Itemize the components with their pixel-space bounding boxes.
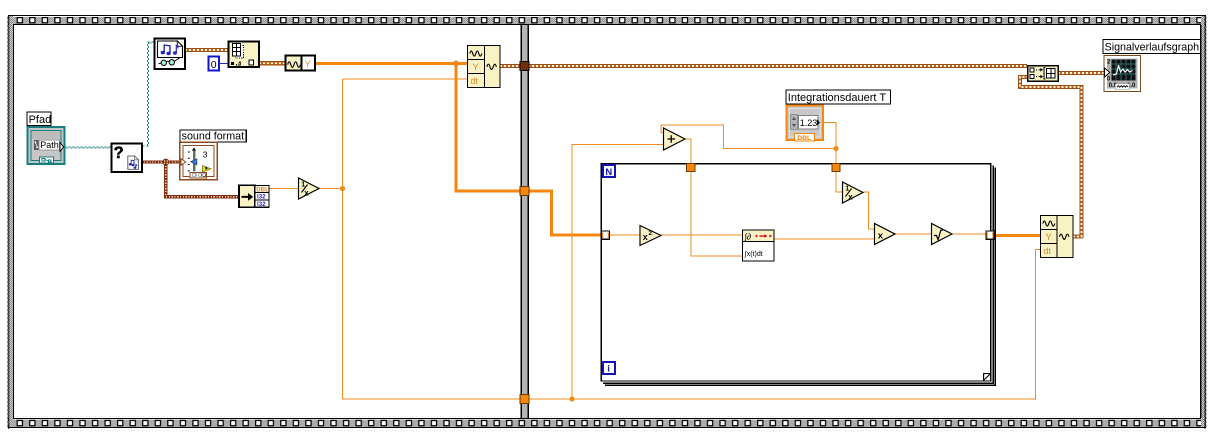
faint guide line top — [8, 10, 1206, 12]
wire: DBL Unbundle sample rate to reciprocal (thin orange) — [269, 188, 298, 190]
wire: path Sound File Info up to Sound Read (teal dashed) — [143, 42, 155, 146]
flat sequence frame divider — [521, 25, 522, 418]
Sound File Info VI — [112, 144, 143, 173]
tunnel: dt through divider — [520, 395, 529, 404]
wire: DBL reciprocal output dt to riser (thin orange) — [319, 188, 343, 190]
wire: waveform array Sound Read to Index Array (brown striped) — [185, 48, 228, 52]
wire: sound format cluster branch down to Unbundle (brown dotted) — [164, 162, 239, 197]
junction on DBL array wire — [453, 61, 459, 67]
svg-text:Pfad: Pfad — [29, 114, 52, 126]
wire: waveform Index Array to Get Waveform Components (brown striped) — [259, 61, 285, 65]
junction on dt wire — [340, 186, 345, 191]
tunnel: loop top right (T) — [832, 163, 840, 171]
svg-text:Y: Y — [1045, 232, 1052, 243]
wire: square root to loop output tunnel (thin orange) — [952, 233, 990, 235]
wire: loop reciprocal to multiply upper input (thin orange) — [864, 192, 875, 229]
junction on T wire — [833, 146, 838, 151]
junction on cluster wire — [162, 159, 169, 166]
svg-text:Integrationsdauert T: Integrationsdauert T — [788, 92, 887, 104]
svg-text:DBL: DBL — [797, 135, 811, 142]
svg-text:x: x — [304, 188, 309, 197]
wire: dt to Build Waveform 1 dt input (thin orange) — [343, 78, 468, 80]
wire: Integrationsdauert T control to junction and loop tunnel (thin orange) — [823, 123, 836, 164]
Sound Read VI — [155, 39, 186, 70]
tunnel: loop top left (dt+T) — [687, 163, 695, 171]
svg-text:∫∂: ∫∂ — [744, 231, 752, 241]
svg-text:dt: dt — [1043, 246, 1051, 256]
svg-text:x: x — [643, 232, 648, 242]
tunnel: loop output auto-indexing — [986, 231, 994, 239]
Build Waveform 1 — [468, 46, 501, 88]
svg-text:N: N — [605, 167, 612, 178]
svg-text:∫x(t)dt: ∫x(t)dt — [744, 251, 763, 258]
wire: x squared to integral (thin orange) — [661, 234, 742, 236]
svg-text:x: x — [878, 231, 884, 242]
tunnel: loop input auto-indexing — [601, 231, 609, 239]
Unbundle — [239, 185, 269, 208]
flat sequence structure: bottom film-strip border — [8, 419, 1206, 427]
multiply function — [875, 224, 896, 245]
svg-text:I32: I32 — [257, 201, 266, 208]
I32 constant 0 — [209, 57, 220, 71]
flat sequence structure: right torn border — [1201, 16, 1205, 427]
tunnel: waveform through divider — [520, 62, 529, 71]
wire: waveform array Build Array to Signalverlaufsgraph terminal (brown striped) — [1058, 71, 1104, 75]
flat sequence structure: left torn border — [9, 16, 13, 427]
label Integrationsdauert T — [786, 90, 891, 104]
integral x(t)dt — [743, 230, 775, 261]
wire: integral output to multiply lower input (thin orange) — [774, 238, 874, 240]
wire: waveform Build Waveform 1 across divider to Build Array (brown striped) — [500, 64, 1027, 68]
wire: multiply to square root (thin orange) — [895, 233, 931, 235]
wire: DBL array For loop output tunnel to Build Waveform 2 Y (thick orange) — [994, 234, 1040, 237]
wire: dt up to Build Waveform 2 dt input (thin orange) — [1036, 250, 1041, 400]
wire: dt riser to Add lower input (thin orange) — [572, 145, 663, 400]
wire: top right tunnel down to loop reciprocal (thin orange) — [836, 172, 842, 193]
Build Waveform 2 — [1041, 216, 1074, 258]
svg-text:dt: dt — [470, 76, 478, 86]
waveform graph terminal — [1104, 56, 1141, 92]
svg-text:2: 2 — [648, 230, 652, 237]
For loop iteration terminal i — [603, 362, 615, 375]
wire: loop tunnel to x squared (thin orange) — [610, 234, 641, 236]
svg-text:sound format: sound format — [182, 131, 245, 143]
label Pfad — [27, 112, 51, 126]
reciprocal 1/x — [299, 178, 320, 199]
wire: T branch to Add upper input (thin orange) — [661, 125, 836, 149]
square root function — [932, 224, 953, 245]
Build Array — [1028, 66, 1059, 82]
faint guide line below bottom band — [8, 430, 1206, 432]
svg-text:Y: Y — [305, 59, 312, 70]
svg-text:1.23: 1.23 — [800, 118, 818, 128]
faint guide line above bottom band — [14, 416, 1200, 418]
svg-text:?: ? — [114, 144, 124, 162]
svg-text:3: 3 — [203, 149, 208, 159]
wire: Add output down into For loop left top tunnel (thin orange) — [686, 139, 691, 164]
For loop fold corner — [984, 374, 991, 381]
svg-text:0: 0 — [211, 59, 217, 71]
junction on dt bottom run — [569, 396, 574, 401]
wire: path Pfad control to Sound File Info (teal dashed) — [65, 147, 112, 148]
Get Waveform Components — [286, 56, 316, 71]
wire: DBL array Get Waveform Components Y to Build Waveform 1 (thick orange) — [315, 62, 467, 65]
sound format cluster control — [180, 142, 217, 179]
loop reciprocal 1/x — [843, 182, 864, 203]
path control Pfad — [28, 127, 65, 164]
add function — [664, 128, 686, 150]
svg-text:x: x — [848, 192, 853, 201]
numeric control Integrationsdauert T — [787, 106, 824, 142]
tunnel: DBL array through divider — [520, 186, 529, 195]
flat sequence structure: top film-strip border — [8, 16, 1206, 24]
label sound format — [180, 130, 246, 143]
wire: DBL array branch down across divider into For loop (thick orange) — [456, 64, 602, 236]
wire: dt bottom run across divider to right frame (thin orange) — [343, 398, 1037, 400]
wire: waveform Build Waveform 2 up and around to Build Array input 2 (brown striped) — [1020, 77, 1082, 237]
wire: top left tunnel down to integral dt input (thin orange) — [691, 172, 742, 257]
label Signalverlaufsgraph — [1103, 40, 1201, 54]
wire: dt riser vertical (thin orange) — [342, 79, 344, 399]
svg-text:i: i — [607, 363, 610, 374]
wire: I32 constant 0 to Index Array (blue) — [219, 63, 228, 65]
x squared function — [640, 226, 661, 246]
For loop count terminal N — [603, 165, 615, 178]
Index Array — [229, 42, 260, 68]
wire: sound format cluster from Sound File Info to sound format control (brown dotted) — [141, 160, 181, 163]
For loop frame — [601, 164, 995, 386]
svg-text:Y: Y — [472, 62, 479, 73]
svg-text:Signalverlaufsgraph: Signalverlaufsgraph — [1105, 41, 1200, 53]
svg-text:Path: Path — [40, 140, 59, 150]
